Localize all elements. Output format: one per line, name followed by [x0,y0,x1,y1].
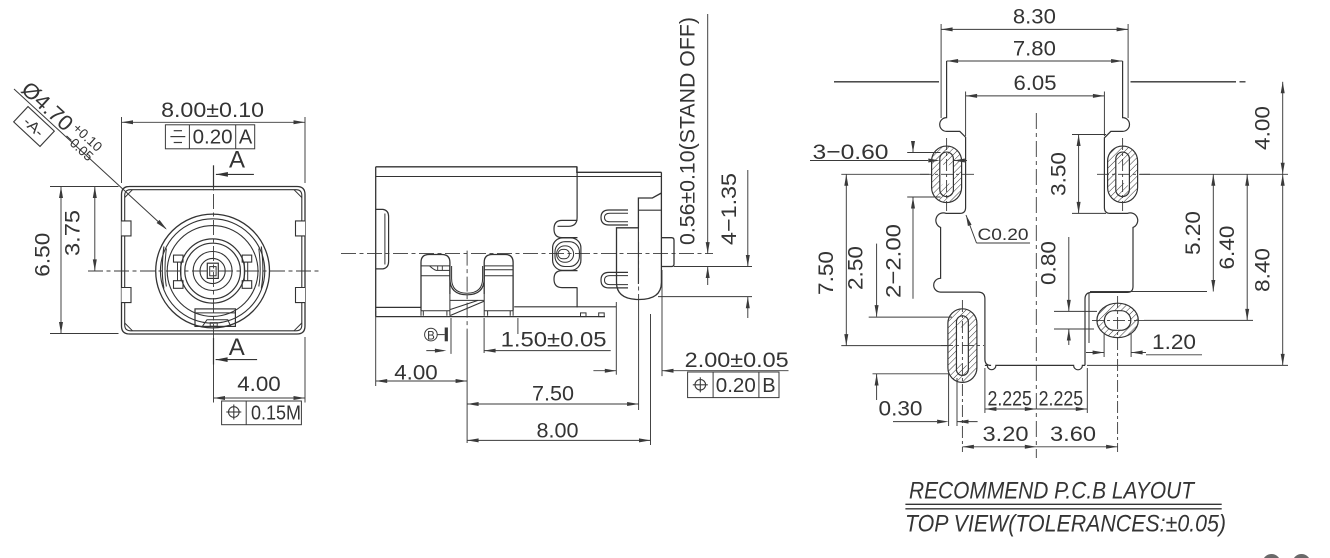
svg-text:B: B [762,375,775,397]
top view: barrel circle 4 [181,239,245,303]
dimension 6.05 [965,92,967,137]
side view: leg 1 [421,255,450,311]
dimension 2.00±0.05 [615,302,617,375]
side view: bracket fold line [638,209,661,211]
top view: corner nick top-right [294,190,302,198]
side view: pin [661,238,674,267]
svg-text:1.50±0.05: 1.50±0.05 [501,328,607,352]
pcb layout: bottom-right hole pad outer [1097,303,1138,337]
dimension 8.40 [1087,364,1288,366]
svg-text:4.00: 4.00 [394,361,438,385]
top view: corner nick top-left [125,190,133,198]
pcb layout: top-right slot centerlines [1122,138,1124,211]
svg-text:3.20: 3.20 [983,422,1029,446]
svg-text:8.30: 8.30 [1013,5,1056,29]
svg-text:8.00±0.10: 8.00±0.10 [161,98,264,122]
dimension 6.50 [50,186,119,188]
pcb layout: top-right slot pad hatched ring [1108,146,1138,203]
dimension 3.60 [1036,446,1117,448]
side view: foot inner wall [637,228,639,284]
svg-text:0.20: 0.20 [716,375,756,397]
svg-text:2.225: 2.225 [1039,387,1084,411]
svg-text:B: B [427,330,435,342]
side view: leg 2 [484,255,513,311]
pcb layout: top-left slot slot hole [940,152,954,197]
pcb layout: bottom-right hole centerlines [1117,296,1119,452]
dimension 2.225 left [984,368,986,413]
dimension 3.50 [1072,134,1106,136]
svg-text:C0.20: C0.20 [978,226,1029,244]
side view: right edge and foot [617,172,662,299]
side view: left edge [375,167,377,317]
svg-text:0.30: 0.30 [879,397,923,421]
side view: body right edge lower [576,288,578,308]
pcb layout: bottom-left slot slot hole [956,316,968,376]
ui button circle 1 [1263,554,1281,558]
top view: right clip top tab [242,255,252,262]
svg-text:6.40: 6.40 [1215,225,1239,269]
side view: top edge [376,167,662,173]
side view: horizontal centerline [341,253,713,255]
side view: legs centerline [466,251,468,330]
dimension 7.80 [947,60,1123,62]
top view: right ear arc inner [259,249,260,287]
section line A bottom [213,338,215,365]
chamfer note C0.20 [966,215,972,226]
dimension 0.56±0.10 stand off [707,14,709,254]
pcb layout: bottom-right hole pad hatched ring [1097,303,1138,337]
svg-text:0.80: 0.80 [1037,241,1061,285]
top view: body outline outer [122,187,306,335]
side view: contact barrel oval 2 [555,242,579,267]
side view: body bottom edge left [376,306,421,308]
leader diameter 4.70 +0.10/-0.05 [14,89,166,229]
side view: top inner line [376,176,662,178]
side view: left bump [376,209,389,269]
svg-text:7.50: 7.50 [814,251,838,295]
pcb layout: left wing top edge [834,81,939,83]
dimension 5.20 [1090,291,1207,293]
top view: left clip top tab [174,255,184,262]
top view: right edge notch lower [296,288,306,303]
side view: leg 1 feet [421,294,450,316]
svg-text:8.00: 8.00 [537,419,579,443]
datum B balloon [425,328,438,341]
top view: corner nick bottom-left [125,323,133,331]
side view: solder plate diagonal 1 [450,300,478,309]
pcb layout: top-left slot centerlines [946,138,948,211]
svg-text:2.225: 2.225 [987,387,1032,411]
dimension 4-1.35 [747,170,749,267]
svg-text:4.00: 4.00 [1251,106,1275,150]
side view: hook bottom [601,272,628,288]
dimension 4.00 pcb right [1140,173,1288,175]
dimension 1.20 [1103,333,1105,357]
dimension 2-2.00 [907,152,940,154]
pcb layout: bottom edge with notches [985,365,1085,369]
dimension 2.225 right [1086,368,1088,413]
dimension 4.00 side view [375,311,377,386]
svg-text:4−1.35: 4−1.35 [717,173,741,245]
pcb layout: outline left side [934,61,991,365]
svg-text:6.05: 6.05 [1014,71,1057,95]
dimension 2.50 [876,244,878,317]
ui button circle 2 [1293,554,1311,558]
top view: left ear arc inner [165,249,166,287]
top view: barrel circle 5 [185,243,241,299]
top view: center pin square inner [210,267,216,276]
side view: solder plate top edge [450,299,484,301]
top view: body outline inner [125,190,302,331]
pcb layout: center vertical axis [1035,113,1037,458]
dimension 3.20 [962,446,1036,448]
top view: left edge notch lower [122,288,132,303]
top view: barrel circle outer [156,214,270,328]
svg-text:6.50: 6.50 [31,233,55,277]
dimension 7.50 side view [467,403,638,405]
side view: arch between legs [450,266,484,295]
side view: leg 2 feet [484,294,513,316]
svg-text:2.00±0.05: 2.00±0.05 [685,348,789,372]
datum B extension line [450,318,452,354]
side view: contact barrel oval 3 [557,246,574,262]
svg-text:A: A [229,147,245,174]
dimension 7.50 pcb [841,173,929,175]
top view: left clip rails [178,262,181,281]
top view: barrel circle 6 [193,252,232,291]
top view: right ear arc outer [261,247,263,289]
pcb layout: bottom-left slot pad outer [948,309,977,383]
pcb layout: inner right step line [1088,293,1090,343]
dimension 1.50±0.05 [483,318,485,353]
pcb layout: top-right slot slot hole [1116,152,1130,197]
side view: contact barrel oval 4 [558,249,569,258]
dimension 8.00±0.10 [121,117,123,183]
svg-text:3.75: 3.75 [61,210,85,256]
feature control frame position 0.15 M [222,401,302,425]
pcb layout: top-left slot pad outer [932,146,962,203]
side view: solder plate diagonal 2 [450,301,484,315]
top view: center pin square outer [207,263,218,278]
dimension 8.00 side view [650,314,652,445]
svg-text:A: A [239,127,253,149]
side view: contact top bracket [554,220,578,237]
top view: barrel circle 7 [200,258,225,283]
top view: barrel circle 2 [160,219,264,323]
top view: bottom tab mark [210,323,217,327]
svg-text:7.80: 7.80 [1013,37,1056,61]
svg-text:2.50: 2.50 [844,246,868,290]
feature control frame position 0.20 B [688,372,779,398]
svg-text:0.56±0.10(STAND OFF): 0.56±0.10(STAND OFF) [677,17,700,245]
side view: contact barrel oval 1 [553,238,581,270]
svg-text:0.20: 0.20 [193,127,233,149]
svg-text:8.40: 8.40 [1251,248,1275,292]
svg-text:TOP VIEW(TOLERANCES:±0.05): TOP VIEW(TOLERANCES:±0.05) [905,511,1226,538]
side view: hook top [601,210,628,225]
pcb layout: outline right side [1085,61,1138,365]
top view: right clip bottom tab [242,281,252,289]
dimension 8.30 [940,24,942,118]
pcb layout: top-right slot pad outer [1108,146,1138,203]
title top view tolerances [905,508,1221,510]
dimension 0.30 [948,374,950,427]
svg-text:3.60: 3.60 [1050,422,1096,446]
top view: corner nick bottom-right [294,323,302,331]
svg-text:5.20: 5.20 [1181,211,1205,255]
top view: right clip rails [244,262,247,281]
side view: seating line [376,316,605,318]
top view: barrel circle 3 [167,226,258,317]
svg-text:RECOMMEND P.C.B LAYOUT: RECOMMEND P.C.B LAYOUT [909,478,1196,505]
section line A top [213,165,215,187]
svg-text:4.00: 4.00 [237,372,281,396]
side view: contact bottom bracket [554,271,578,288]
top view: bottom tab trapezoid [203,320,231,327]
pcb layout: right wing top edge [1131,81,1237,83]
dimension 0.80 [1054,310,1097,312]
dimension 6.40 [1144,319,1253,321]
svg-text:2−2.00: 2−2.00 [882,224,906,298]
top view: left clip bottom tab [174,281,184,289]
dimension 4.00 bottom [213,365,215,403]
top view: vertical centerline [213,168,215,362]
side view: body bottom edge right [514,306,616,308]
svg-text:1.20: 1.20 [1152,330,1196,354]
svg-text:7.50: 7.50 [532,382,574,406]
side view: left bump inner line [384,214,386,265]
pcb layout: top-left slot pad hatched ring [932,146,962,203]
side view: body right edge upper [558,167,578,226]
side view: foot centerline [638,242,640,300]
top view: bottom tab outer [195,309,235,327]
top view: right edge notch upper [296,221,306,236]
pcb layout: bottom-left slot pad hatched ring [948,309,977,383]
svg-text:3.50: 3.50 [1046,152,1070,196]
dimension 3.75 [94,187,96,271]
top view: left edge notch upper [122,221,132,236]
side view: contact feet [581,313,587,317]
top view: horizontal centerline [88,270,322,272]
datum A box [14,107,55,147]
top view: left ear arc outer [162,247,164,289]
feature control frame symmetry 0.20 A [165,125,254,149]
pcb layout: bottom-left slot centerlines [961,300,963,452]
top view: bottom tab inner line [195,312,235,314]
svg-text:0.15M: 0.15M [251,403,301,425]
pcb layout: bottom-right oval hole [1104,311,1130,331]
svg-text:A: A [229,334,245,361]
